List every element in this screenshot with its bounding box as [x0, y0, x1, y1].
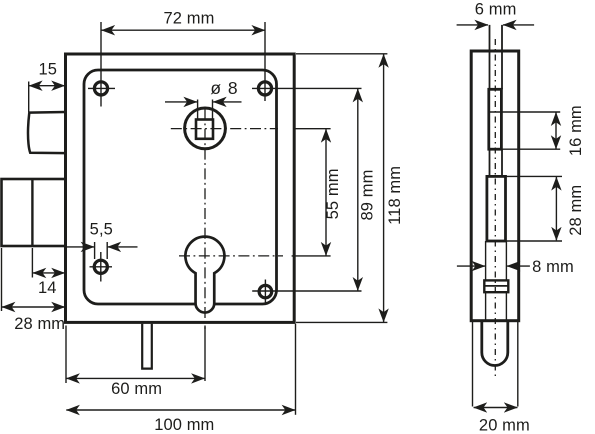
svg-text:20 mm: 20 mm — [479, 416, 530, 434]
svg-text:8 mm: 8 mm — [532, 258, 574, 276]
svg-text:5,5: 5,5 — [90, 220, 113, 238]
svg-text:14: 14 — [38, 279, 57, 297]
svg-text:89 mm: 89 mm — [358, 170, 376, 221]
svg-text:28 mm: 28 mm — [567, 185, 585, 236]
svg-text:55 mm: 55 mm — [324, 168, 342, 219]
svg-text:72 mm: 72 mm — [164, 10, 215, 28]
svg-text:60 mm: 60 mm — [111, 380, 162, 398]
svg-text:6 mm: 6 mm — [475, 1, 517, 19]
svg-text:ø 8: ø 8 — [210, 78, 238, 98]
svg-text:28 mm: 28 mm — [14, 315, 65, 333]
svg-text:100 mm: 100 mm — [154, 416, 214, 434]
svg-text:118 mm: 118 mm — [386, 166, 404, 225]
svg-text:15: 15 — [39, 61, 58, 79]
svg-text:16 mm: 16 mm — [567, 105, 585, 156]
